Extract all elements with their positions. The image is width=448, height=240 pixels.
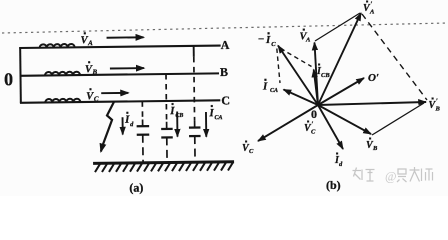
label Id	[334, 153, 343, 168]
inductor LB	[45, 72, 80, 76]
svg-text:′: ′	[436, 98, 438, 106]
svg-text:B: B	[372, 145, 378, 152]
svg-text:I: I	[262, 81, 268, 93]
construction line VA tip to VA' tip	[315, 13, 360, 41]
scan artifact dotted line across top	[2, 23, 448, 33]
phasor -IC	[278, 46, 318, 106]
label VB	[366, 138, 378, 152]
label ICA	[262, 79, 278, 94]
wire drop from phase A junction	[193, 46, 195, 57]
label ICB	[316, 64, 330, 79]
capacitor CA	[189, 127, 201, 136]
svg-text:B: B	[220, 65, 228, 79]
label VA (phase A source voltage)	[80, 32, 93, 47]
svg-text:CB: CB	[175, 113, 183, 119]
wire dashed drop capacitor CC to ground	[142, 135, 144, 163]
svg-text:d: d	[339, 161, 343, 168]
phasor Id (fault current)	[318, 105, 343, 149]
phasor VB'	[318, 102, 426, 105]
svg-text:A: A	[305, 37, 311, 44]
svg-text:O′: O′	[368, 72, 379, 84]
svg-text:C: C	[311, 129, 316, 136]
svg-text:(a): (a)	[129, 181, 143, 195]
capacitor CC	[137, 126, 150, 135]
fault arrow to ground	[101, 146, 103, 152]
phasor O' (neutral displacement)	[318, 78, 364, 105]
construction dashed from -IC tip down to ICA tip	[277, 49, 280, 84]
svg-text:C: C	[249, 148, 254, 155]
node 0 bus (vertical source bus)	[19, 47, 22, 103]
svg-text:I: I	[265, 34, 271, 46]
wire dashed drop from phase B to capacitor CB	[165, 74, 168, 122]
phasor ICA	[284, 90, 319, 106]
label ICB	[169, 103, 183, 119]
label Id	[124, 112, 134, 128]
svg-text:C: C	[271, 41, 276, 48]
fault current arrow Id	[122, 117, 124, 134]
svg-text:0: 0	[311, 107, 317, 121]
label ICA	[208, 105, 222, 121]
phasor VB	[318, 105, 371, 134]
wire phase C	[20, 100, 220, 102]
svg-text:CA: CA	[270, 88, 278, 94]
label VB (phase B source voltage)	[85, 61, 98, 76]
svg-text:0: 0	[4, 69, 13, 89]
svg-text:C: C	[221, 93, 230, 107]
svg-text:A: A	[87, 39, 93, 47]
svg-text:B: B	[91, 68, 97, 76]
current direction arrow phase A	[107, 36, 144, 38]
svg-text:−: −	[258, 34, 264, 46]
svg-text:A: A	[221, 38, 230, 52]
current direction arrow phase B	[110, 67, 144, 69]
inductor LC	[45, 99, 80, 103]
svg-text:′: ′	[371, 1, 373, 9]
svg-text:A: A	[369, 9, 375, 16]
wire phase A	[19, 46, 220, 48]
svg-text:CB: CB	[321, 72, 330, 79]
phasor VA	[315, 43, 319, 106]
ground	[93, 162, 234, 172]
construction dashed from -IC tip to ICB tip	[281, 49, 312, 67]
wire dashed drop capacitor CB to ground	[166, 137, 168, 162]
svg-text:B: B	[435, 106, 441, 113]
watermark zhihu	[353, 167, 433, 184]
label VA'	[363, 1, 375, 16]
svg-text:@: @	[385, 170, 397, 184]
wire dashed drop capacitor CA to ground	[194, 136, 196, 162]
capacitor CB	[161, 129, 173, 138]
current direction arrow phase C	[101, 92, 128, 94]
svg-text:′: ′	[312, 121, 314, 129]
label VA	[300, 29, 312, 44]
svg-text:(b): (b)	[326, 178, 341, 192]
svg-text:C: C	[94, 95, 99, 103]
construction line VB tip to VB' tip	[372, 103, 424, 135]
wire phase B	[20, 73, 219, 75]
ground fault zigzag on phase C	[102, 102, 115, 146]
capacitive current arrow ICA	[205, 112, 207, 137]
wire dashed drop from phase C to capacitor CC	[141, 101, 143, 119]
svg-text:d: d	[130, 121, 134, 128]
label VC' at origin	[304, 121, 316, 136]
capacitive current arrow ICB	[176, 111, 178, 136]
wire dashed drop from phase A to capacitor CA	[193, 57, 196, 120]
label -IC	[258, 32, 276, 48]
phasor ICB	[314, 70, 318, 106]
construction dashed VA' tip to VB' tip	[362, 14, 427, 100]
phasor VA'	[318, 13, 361, 105]
svg-text:CA: CA	[215, 115, 223, 121]
inductor LA	[40, 44, 75, 48]
label VC (phase C source voltage)	[86, 88, 99, 103]
phasor VC	[258, 105, 318, 141]
label VB'	[429, 98, 441, 113]
label VC	[242, 141, 254, 155]
